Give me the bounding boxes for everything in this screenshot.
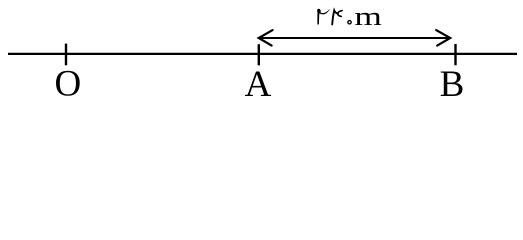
tick B xyxy=(454,44,456,65)
svg-text:O: O xyxy=(55,64,82,102)
arrowhead left xyxy=(259,30,273,45)
svg-text:m: m xyxy=(354,1,381,30)
svg-text:B: B xyxy=(440,64,465,102)
tick O xyxy=(65,44,67,66)
distance label: Persian digit 0 xyxy=(347,20,352,25)
arrowhead right xyxy=(436,30,450,45)
distance label: Persian digit 4 xyxy=(338,11,342,17)
dimension arrow A-B xyxy=(260,37,449,39)
svg-text:A: A xyxy=(245,64,272,102)
tick A xyxy=(258,44,260,65)
number line xyxy=(8,53,517,55)
distance label: Persian digit 2 xyxy=(319,9,330,14)
